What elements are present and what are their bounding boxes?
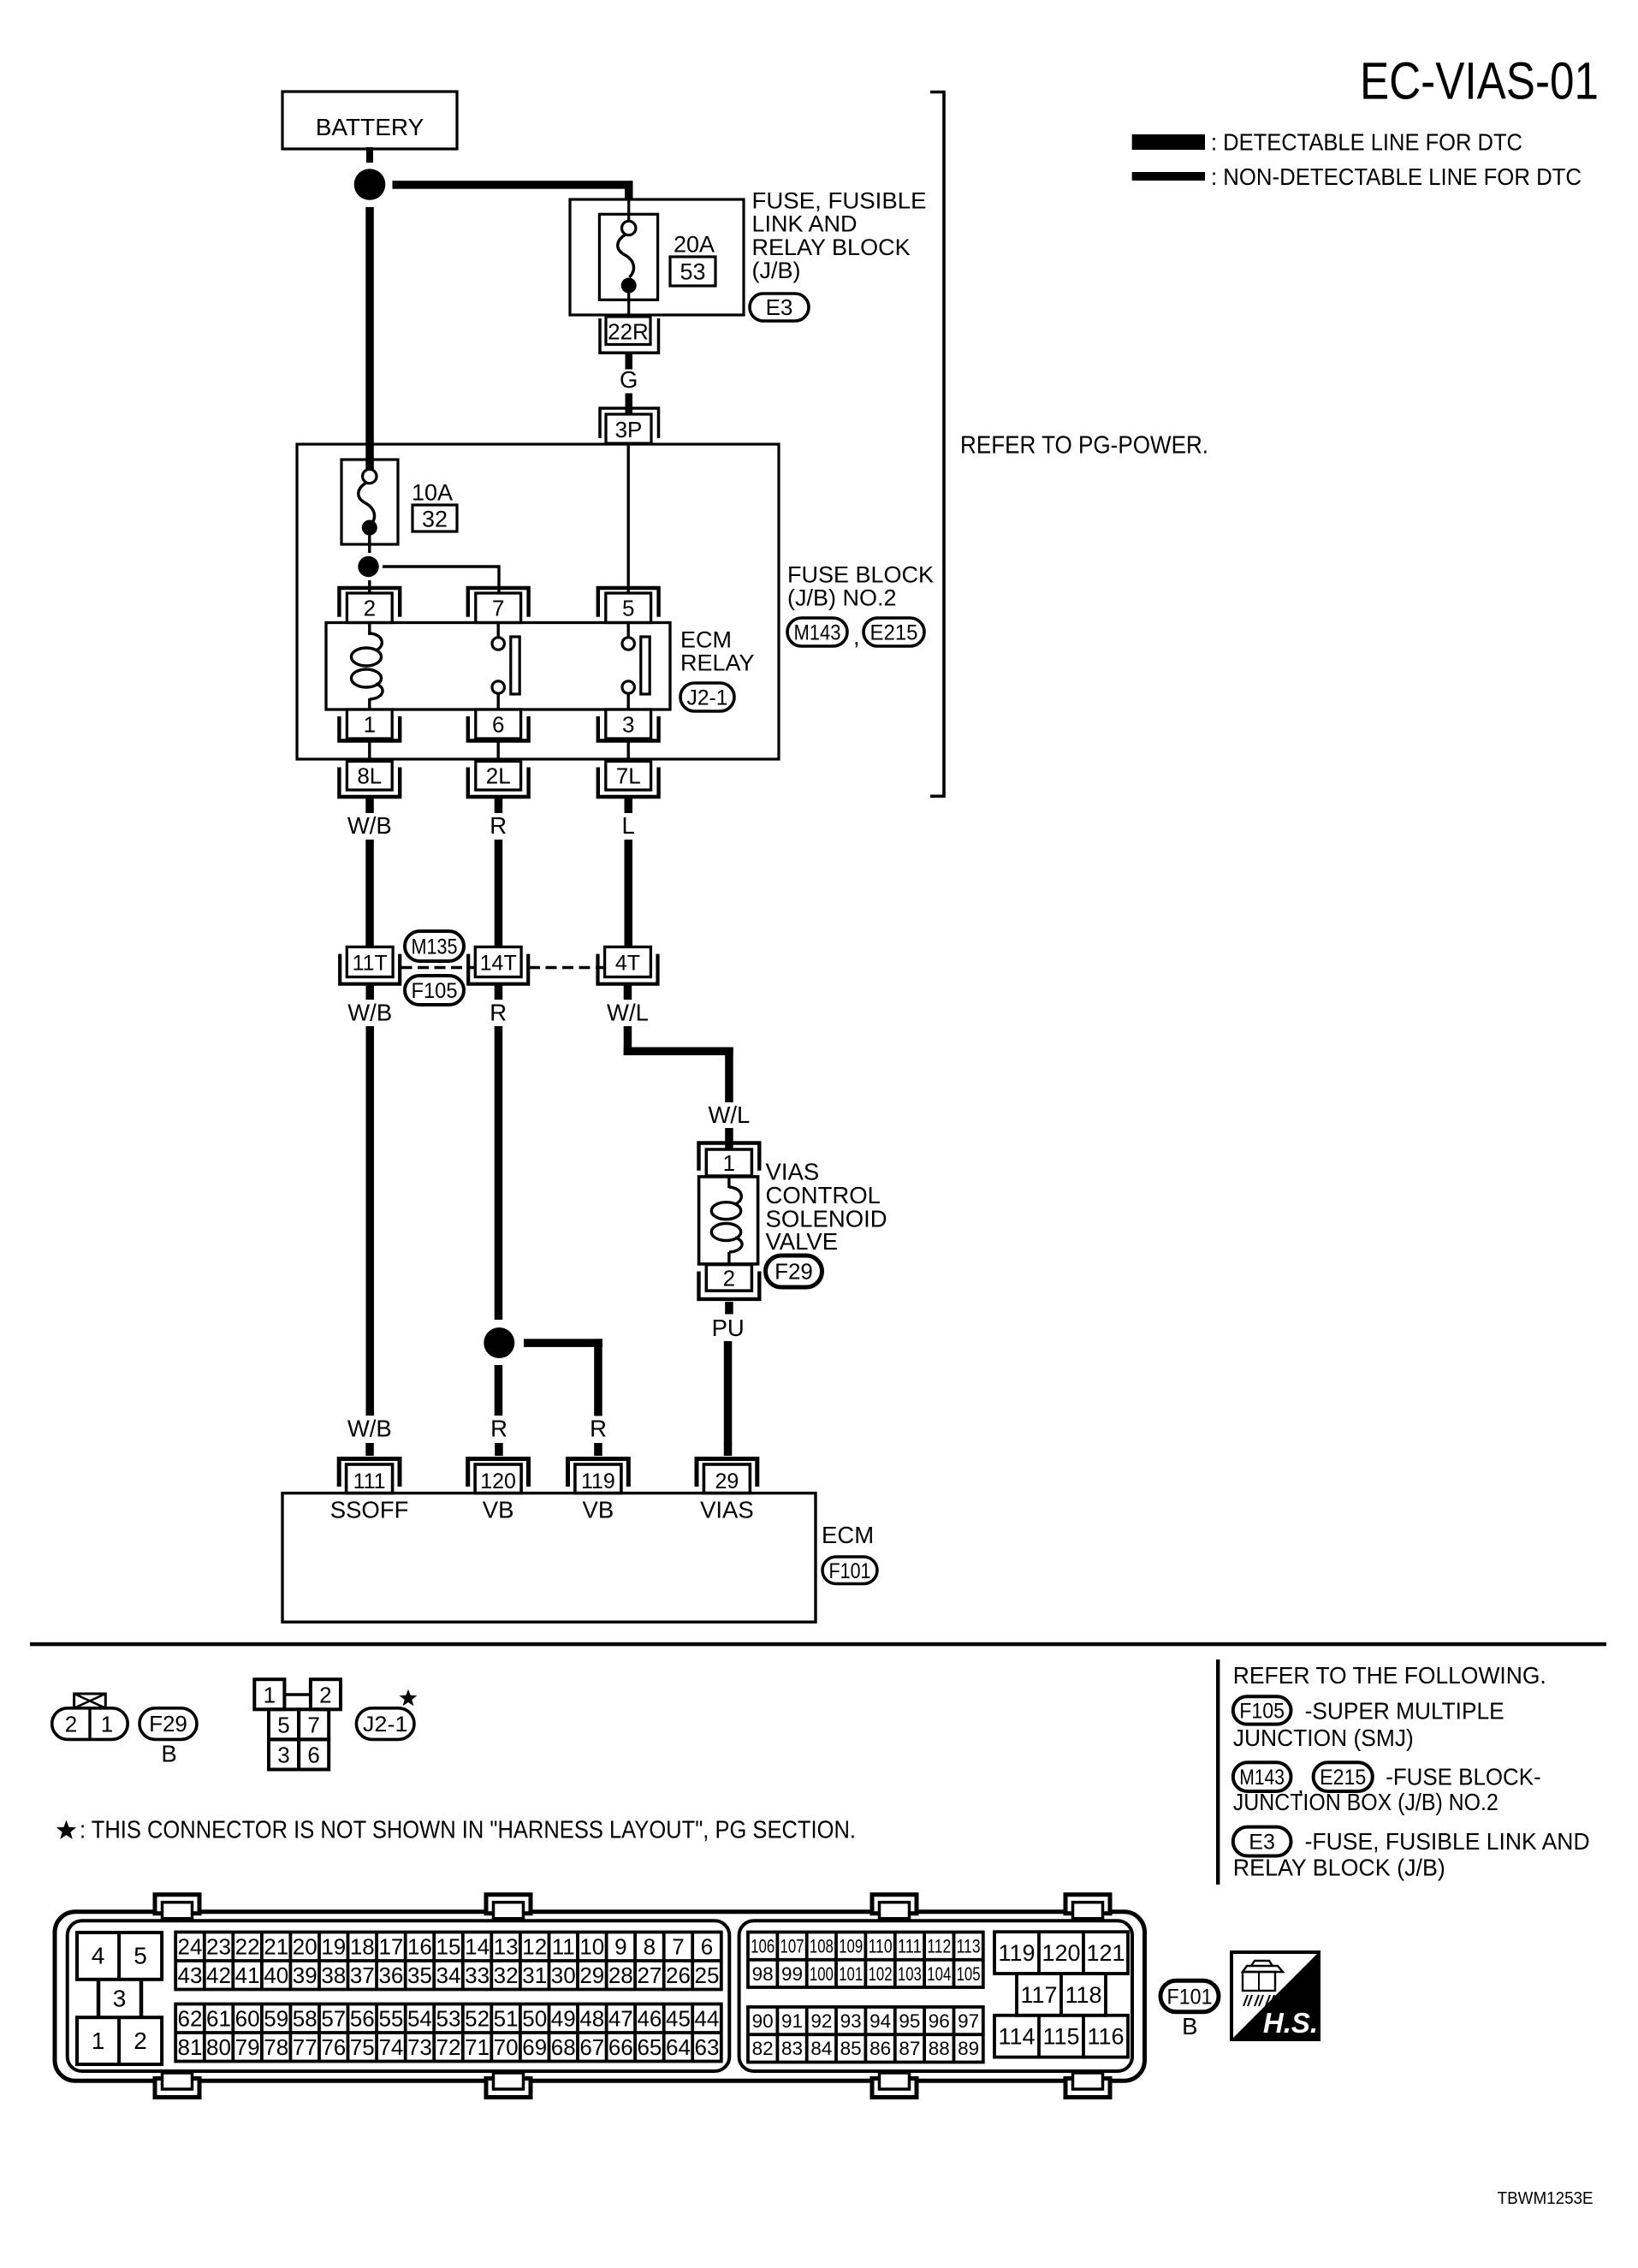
connector label E215 oval ref <box>1314 1762 1373 1791</box>
wire 11T stub (thick) <box>366 986 375 1000</box>
svg-text:105: 105 <box>957 1963 981 1985</box>
svg-text:VB: VB <box>483 1497 514 1523</box>
value label 10A <box>412 480 453 506</box>
svg-text:51: 51 <box>494 2005 519 2031</box>
terminal 3P connector <box>600 408 659 443</box>
svg-text:J2-1: J2-1 <box>687 686 728 710</box>
fuse 10A symbol <box>359 469 377 535</box>
svg-text:53: 53 <box>436 2005 461 2031</box>
svg-text:: THIS CONNECTOR IS NOT SHOWN: : THIS CONNECTOR IS NOT SHOWN IN "HARNES… <box>80 1817 856 1844</box>
connector 14T <box>468 947 528 983</box>
figure code TBWM1253E <box>1498 2188 1593 2208</box>
svg-text:R: R <box>590 1416 607 1442</box>
ECM pin name VB 120 <box>483 1497 514 1523</box>
svg-text:: NON-DETECTABLE LINE FOR DTC: : NON-DETECTABLE LINE FOR DTC <box>1211 163 1582 190</box>
svg-text:M135: M135 <box>412 935 458 959</box>
wire W/L to valve pin 1 (thick) <box>725 1128 733 1151</box>
svg-text:2: 2 <box>364 596 376 621</box>
svg-text:87: 87 <box>899 2038 920 2059</box>
svg-text:73: 73 <box>407 2034 432 2060</box>
connector label F101 oval bottom <box>1160 1980 1219 2012</box>
label B under F29 <box>161 1741 176 1767</box>
wire into fuse 10A (thick) <box>365 444 374 471</box>
svg-text:85: 85 <box>840 2038 862 2059</box>
connector label E215 oval <box>864 618 924 646</box>
connector label M135 oval <box>405 931 464 961</box>
wire color label W/L vertical <box>708 1101 750 1128</box>
svg-text:4T: 4T <box>615 951 640 975</box>
fuse number 32 <box>412 505 457 531</box>
svg-text:77: 77 <box>293 2034 318 2060</box>
ECM pin 111 <box>339 1459 400 1494</box>
svg-text:78: 78 <box>264 2034 288 2060</box>
svg-text:28: 28 <box>608 1962 633 1988</box>
footnote star <box>56 1820 76 1839</box>
svg-text:44: 44 <box>695 2005 720 2031</box>
svg-text:L: L <box>622 812 635 839</box>
svg-text:20: 20 <box>293 1933 318 1959</box>
legend non-detectable line sample <box>1132 172 1205 181</box>
wire PU to ECM 29 (thick) <box>724 1341 733 1445</box>
svg-text:84: 84 <box>810 2038 832 2059</box>
svg-text:LINK AND: LINK AND <box>752 211 858 237</box>
svg-text:TBWM1253E: TBWM1253E <box>1498 2188 1593 2208</box>
svg-text:JUNCTION (SMJ): JUNCTION (SMJ) <box>1233 1725 1414 1751</box>
svg-text:59: 59 <box>264 2005 288 2031</box>
svg-text:5: 5 <box>277 1713 289 1738</box>
svg-text:CONTROL: CONTROL <box>766 1182 881 1208</box>
svg-text:E3: E3 <box>1249 1831 1275 1855</box>
ECM pin 29 <box>697 1459 757 1494</box>
relay pin 2 <box>339 588 400 623</box>
svg-text:R: R <box>490 1416 507 1442</box>
key pin 3 <box>98 1980 141 2017</box>
VIAS control solenoid valve body <box>699 1177 758 1264</box>
refer to the following rule <box>1216 1659 1220 1885</box>
ECM pin name VIAS <box>700 1497 754 1523</box>
svg-text:RELAY BLOCK (J/B): RELAY BLOCK (J/B) <box>1233 1855 1445 1881</box>
svg-text:96: 96 <box>929 2010 950 2032</box>
SMJ dashed link 14T-4T <box>529 966 604 970</box>
connector label E3 oval ref <box>1233 1827 1291 1856</box>
svg-text:6: 6 <box>307 1743 319 1768</box>
svg-text:32: 32 <box>422 506 448 531</box>
svg-text:43: 43 <box>178 1962 203 1988</box>
svg-text:W/B: W/B <box>347 1416 392 1442</box>
svg-text:47: 47 <box>608 2005 633 2031</box>
ECM relay box <box>326 623 670 710</box>
svg-text:4: 4 <box>92 1943 105 1969</box>
svg-text:19: 19 <box>321 1933 346 1959</box>
fuse block J/B NO.2 outline <box>297 444 779 759</box>
wire color label R branch bottom <box>590 1416 607 1442</box>
svg-text:115: 115 <box>1042 2024 1079 2050</box>
svg-text:(J/B) NO.2: (J/B) NO.2 <box>787 585 897 611</box>
junction node R splice <box>484 1327 514 1358</box>
svg-text:18: 18 <box>350 1933 375 1959</box>
svg-text:15: 15 <box>436 1933 461 1959</box>
svg-text:14T: 14T <box>480 951 517 975</box>
svg-text:69: 69 <box>522 2034 547 2060</box>
svg-text:56: 56 <box>350 2005 375 2031</box>
svg-text:6: 6 <box>492 711 504 737</box>
svg-text:31: 31 <box>522 1962 547 1988</box>
svg-text:7L: 7L <box>616 763 641 789</box>
relay pin 7 <box>468 588 529 623</box>
label fuse fusible link and relay block <box>752 188 927 284</box>
svg-text:111: 111 <box>898 1936 922 1957</box>
svg-text:23: 23 <box>206 1933 231 1959</box>
svg-text:FUSE BLOCK: FUSE BLOCK <box>787 562 934 588</box>
svg-text:101: 101 <box>839 1963 863 1985</box>
svg-text:F101: F101 <box>1167 1986 1213 2010</box>
svg-text:2: 2 <box>319 1683 331 1708</box>
svg-text:68: 68 <box>551 2034 576 2060</box>
svg-text:W/L: W/L <box>607 1000 649 1026</box>
svg-text:116: 116 <box>1087 2024 1124 2050</box>
ECM box F101 <box>282 1493 816 1623</box>
svg-text:-FUSE BLOCK-: -FUSE BLOCK- <box>1386 1763 1541 1790</box>
wire junction to E3 fuse (thick horizontal) <box>393 181 633 200</box>
svg-text:42: 42 <box>206 1962 231 1988</box>
svg-text:F105: F105 <box>1239 1700 1285 1724</box>
svg-text:39: 39 <box>293 1962 318 1988</box>
wire color label L <box>622 812 635 839</box>
svg-text:45: 45 <box>666 2005 691 2031</box>
connector label F105 oval <box>405 976 464 1005</box>
svg-text:6: 6 <box>701 1933 713 1959</box>
H.S. harness side icon <box>1231 1952 1319 2039</box>
svg-text:-FUSE, FUSIBLE LINK AND: -FUSE, FUSIBLE LINK AND <box>1305 1828 1590 1855</box>
VIAS control solenoid valve pin 1 <box>699 1143 760 1177</box>
svg-text:M143: M143 <box>794 621 841 645</box>
svg-text:8L: 8L <box>357 763 382 789</box>
connector label J2-1 oval bottom <box>356 1708 414 1740</box>
svg-text:110: 110 <box>869 1936 893 1957</box>
relay pin 3 <box>598 709 659 741</box>
svg-text:113: 113 <box>957 1936 981 1957</box>
svg-text:F29: F29 <box>149 1711 187 1737</box>
comma separator <box>853 624 860 650</box>
svg-text:46: 46 <box>637 2005 662 2031</box>
svg-text:3P: 3P <box>615 417 643 442</box>
relay contact pins 7-6 <box>492 623 519 710</box>
wire relay pin 1 to 8L <box>368 739 371 762</box>
svg-text:M143: M143 <box>1239 1766 1285 1790</box>
svg-text:82: 82 <box>752 2038 774 2059</box>
label super multiple junction <box>1233 1698 1504 1752</box>
svg-text:21: 21 <box>264 1933 288 1959</box>
wire 11T to ECM 111 (thick) <box>366 1026 375 1416</box>
key pins 1 2 <box>77 2017 162 2064</box>
svg-text:119: 119 <box>998 1940 1035 1966</box>
svg-text:2: 2 <box>723 1265 735 1291</box>
label fuse block junction box <box>1233 1763 1541 1815</box>
svg-text:104: 104 <box>927 1963 951 1985</box>
svg-text:1: 1 <box>264 1683 276 1708</box>
svg-text:102: 102 <box>869 1963 893 1985</box>
svg-text:2: 2 <box>134 2028 147 2054</box>
svg-text:79: 79 <box>235 2034 260 2060</box>
svg-text:74: 74 <box>378 2034 403 2060</box>
svg-text:107: 107 <box>780 1936 804 1957</box>
svg-text:91: 91 <box>781 2010 803 2032</box>
svg-text:94: 94 <box>869 2010 891 2032</box>
svg-text:29: 29 <box>715 1469 739 1493</box>
battery B1 <box>282 92 457 149</box>
footnote text <box>80 1817 856 1844</box>
svg-text:34: 34 <box>436 1962 461 1988</box>
svg-text:VIAS: VIAS <box>700 1497 754 1523</box>
ECM connector outer shell <box>55 1912 1145 2081</box>
legend detectable line text <box>1211 129 1522 156</box>
fuse number 53 <box>670 257 715 286</box>
VIAS valve coil <box>711 1177 742 1265</box>
svg-text:64: 64 <box>666 2034 691 2060</box>
svg-text:27: 27 <box>637 1962 662 1988</box>
svg-text:REFER TO PG-POWER.: REFER TO PG-POWER. <box>960 431 1208 459</box>
svg-text:(J/B): (J/B) <box>752 258 801 283</box>
legend detectable line sample <box>1132 134 1205 150</box>
wire 14T stub (thick) <box>495 986 503 1000</box>
svg-text:24: 24 <box>178 1933 203 1959</box>
ECM pin grid 62-44 81-63 <box>175 2004 721 2062</box>
wire color label R bottom <box>490 1416 507 1442</box>
wire 14T to junction (thick) <box>495 1026 503 1416</box>
svg-text:76: 76 <box>321 2034 346 2060</box>
svg-text:H.S.: H.S. <box>1263 2007 1318 2039</box>
wire color label PU <box>712 1315 745 1341</box>
wire fuse 10A to junction <box>368 534 371 553</box>
ECM connector top tab 3 <box>872 1895 917 1919</box>
svg-text:63: 63 <box>695 2034 720 2060</box>
svg-text:88: 88 <box>929 2038 950 2059</box>
svg-text:VALVE: VALVE <box>766 1228 839 1255</box>
svg-text:26: 26 <box>666 1962 691 1988</box>
svg-text:29: 29 <box>579 1962 604 1988</box>
terminal 22R connector <box>600 317 659 353</box>
svg-text:62: 62 <box>178 2005 203 2031</box>
svg-text:7: 7 <box>672 1933 684 1959</box>
svg-text:22R: 22R <box>608 319 649 345</box>
ECM connector top tab 2 <box>486 1895 531 1919</box>
svg-text:111: 111 <box>353 1469 386 1493</box>
svg-text:G: G <box>620 366 638 393</box>
svg-text:38: 38 <box>321 1962 346 1988</box>
svg-text:17: 17 <box>378 1933 403 1959</box>
connector label M143 oval <box>787 618 847 646</box>
svg-text:55: 55 <box>378 2005 403 2031</box>
relay pin 1 <box>339 709 400 741</box>
svg-text:2: 2 <box>65 1712 77 1737</box>
svg-text:35: 35 <box>407 1962 432 1988</box>
svg-text:B: B <box>1182 2013 1197 2039</box>
svg-text:117: 117 <box>1020 1982 1057 2008</box>
terminal 2L connector <box>468 762 529 798</box>
wire relay pin 3 to 7L <box>627 739 630 762</box>
svg-text:8: 8 <box>644 1933 656 1959</box>
wire stubs into ECM pins (thick) <box>365 1443 732 1456</box>
star mark for J2-1 <box>400 1689 418 1707</box>
svg-text:E215: E215 <box>870 621 918 645</box>
wire 7L down color L (thick) <box>625 799 633 947</box>
svg-text:50: 50 <box>522 2005 547 2031</box>
svg-text:14: 14 <box>465 1933 490 1959</box>
svg-text:11: 11 <box>552 1933 575 1959</box>
svg-text:SSOFF: SSOFF <box>330 1497 409 1523</box>
legend non-detectable line text <box>1211 163 1582 190</box>
svg-text:R: R <box>490 812 507 839</box>
wire 22R to 3P color G (thick) <box>626 354 633 417</box>
connector label F29 oval <box>766 1256 822 1287</box>
ECM connector right cavity <box>739 1921 1132 2071</box>
wire R branch to ECM 119 (thick) <box>524 1339 602 1416</box>
svg-text:10: 10 <box>579 1933 604 1959</box>
svg-text:1: 1 <box>92 2028 105 2054</box>
fuse 20A symbol <box>618 221 637 293</box>
svg-text:: DETECTABLE LINE FOR DTC: : DETECTABLE LINE FOR DTC <box>1211 129 1522 156</box>
ECM connector bottom tab 4 <box>1065 2073 1110 2098</box>
ECM pin name VB 119 <box>583 1497 614 1523</box>
svg-text:98: 98 <box>752 1963 774 1985</box>
wire valve pin 2 down (thick) <box>725 1302 733 1315</box>
svg-text:93: 93 <box>840 2010 862 2032</box>
svg-text:VB: VB <box>583 1497 614 1523</box>
connector label M143 oval ref <box>1233 1762 1291 1791</box>
svg-text:114: 114 <box>998 2024 1035 2050</box>
svg-text:83: 83 <box>781 2038 803 2059</box>
label B under F101 <box>1182 2013 1197 2039</box>
svg-text:60: 60 <box>235 2005 260 2031</box>
svg-text:54: 54 <box>407 2005 432 2031</box>
relay coil <box>352 623 383 710</box>
wire junction to fuse block (thick) <box>365 207 374 445</box>
svg-text:48: 48 <box>579 2005 604 2031</box>
svg-text:R: R <box>490 1000 507 1026</box>
svg-text:103: 103 <box>898 1963 922 1985</box>
wire junction branch to relay pin 7 <box>383 567 499 594</box>
connector 4T <box>598 947 658 983</box>
ECM pin 119 <box>568 1459 629 1494</box>
svg-text:112: 112 <box>927 1936 951 1957</box>
label ECM RELAY <box>680 627 755 676</box>
key pins 4 5 <box>77 1933 162 1980</box>
wire fuse 20A to 22R <box>627 292 630 318</box>
svg-text:B: B <box>161 1741 176 1767</box>
svg-text:120: 120 <box>480 1469 516 1493</box>
svg-text:RELAY BLOCK: RELAY BLOCK <box>752 235 911 260</box>
wire 3P to relay pin 5 <box>627 446 630 594</box>
label refer to PG-POWER <box>960 431 1208 459</box>
connector face F29 symbol <box>52 1694 128 1739</box>
svg-text:71: 71 <box>465 2034 490 2060</box>
wire 8L down color W/B (thick) <box>365 799 374 947</box>
svg-text:13: 13 <box>494 1933 519 1959</box>
svg-text:REFER TO THE FOLLOWING.: REFER TO THE FOLLOWING. <box>1233 1662 1546 1689</box>
svg-text:12: 12 <box>522 1933 547 1959</box>
ECM connector bottom tab 3 <box>872 2073 917 2098</box>
terminal 8L connector <box>339 762 400 798</box>
svg-text:106: 106 <box>751 1936 774 1957</box>
label fuse block J/B NO.2 <box>787 562 934 611</box>
svg-text:5: 5 <box>134 1943 147 1969</box>
svg-text:65: 65 <box>637 2034 662 2060</box>
wire color label W/B <box>347 812 392 839</box>
svg-text:3: 3 <box>113 1986 127 2012</box>
wire into fuse 20A <box>627 201 630 223</box>
wire battery to junction <box>366 147 373 163</box>
svg-text:33: 33 <box>465 1962 490 1988</box>
ECM pin 120 <box>468 1459 529 1494</box>
terminal 7L connector <box>598 762 659 798</box>
svg-text:7: 7 <box>492 596 504 621</box>
connector label F101 oval <box>822 1557 877 1584</box>
svg-text:J2-1: J2-1 <box>363 1713 408 1737</box>
svg-text:72: 72 <box>436 2034 461 2060</box>
svg-text:49: 49 <box>551 2005 576 2031</box>
svg-text:W/B: W/B <box>347 1000 392 1026</box>
svg-text:1: 1 <box>101 1712 113 1737</box>
connector label F105 oval ref <box>1233 1696 1291 1724</box>
svg-text:32: 32 <box>494 1962 519 1988</box>
ECM pin grid 90-97 82-89 <box>748 2007 983 2063</box>
svg-text:5: 5 <box>622 596 634 621</box>
svg-text:F101: F101 <box>829 1559 871 1583</box>
relay contact pins 5-3 <box>622 623 650 710</box>
svg-text:109: 109 <box>839 1936 863 1957</box>
svg-text:61: 61 <box>206 2005 231 2031</box>
relay pin 6 <box>468 709 529 741</box>
svg-text:90: 90 <box>752 2010 774 2032</box>
svg-text:FUSE, FUSIBLE: FUSE, FUSIBLE <box>752 188 927 214</box>
connector face J2-1 symbol <box>254 1679 341 1769</box>
wire color label R mid <box>490 1000 507 1026</box>
ECM connector top tab 4 <box>1065 1895 1110 1919</box>
svg-text:20A: 20A <box>674 231 715 257</box>
svg-text:ECM: ECM <box>822 1522 874 1548</box>
svg-text:81: 81 <box>178 2034 203 2060</box>
wire color label W/B mid <box>347 1000 392 1026</box>
ECM connector top tab 1 <box>155 1895 199 1919</box>
svg-text:EC-VIAS-01: EC-VIAS-01 <box>1360 52 1599 110</box>
svg-text:41: 41 <box>235 1962 260 1988</box>
svg-text:97: 97 <box>958 2010 979 2032</box>
ECM pins 117 118 <box>1017 1974 1106 2016</box>
svg-text:75: 75 <box>350 2034 375 2060</box>
fuse 10A element box <box>341 460 398 544</box>
ECM connector bottom tab 2 <box>486 2073 531 2098</box>
wire 4T stub (thick) <box>624 986 632 1000</box>
svg-text:108: 108 <box>810 1936 834 1957</box>
svg-text:30: 30 <box>551 1962 576 1988</box>
fuse 20A element box <box>599 214 657 300</box>
ECM pin name SSOFF <box>330 1497 409 1523</box>
svg-text:58: 58 <box>293 2005 318 2031</box>
svg-text:66: 66 <box>608 2034 633 2060</box>
svg-text:3: 3 <box>277 1743 289 1768</box>
svg-text:100: 100 <box>810 1963 834 1985</box>
svg-text:,: , <box>853 624 860 650</box>
comma ref <box>1297 1772 1304 1798</box>
svg-text:118: 118 <box>1065 1982 1101 2008</box>
svg-text:70: 70 <box>494 2034 519 2060</box>
svg-text:80: 80 <box>206 2034 231 2060</box>
svg-text:120: 120 <box>1042 1940 1080 1966</box>
svg-text:1: 1 <box>723 1150 735 1176</box>
svg-text:JUNCTION BOX (J/B) NO.2: JUNCTION BOX (J/B) NO.2 <box>1233 1789 1499 1815</box>
svg-text:99: 99 <box>781 1963 803 1985</box>
label ECM <box>822 1522 874 1548</box>
